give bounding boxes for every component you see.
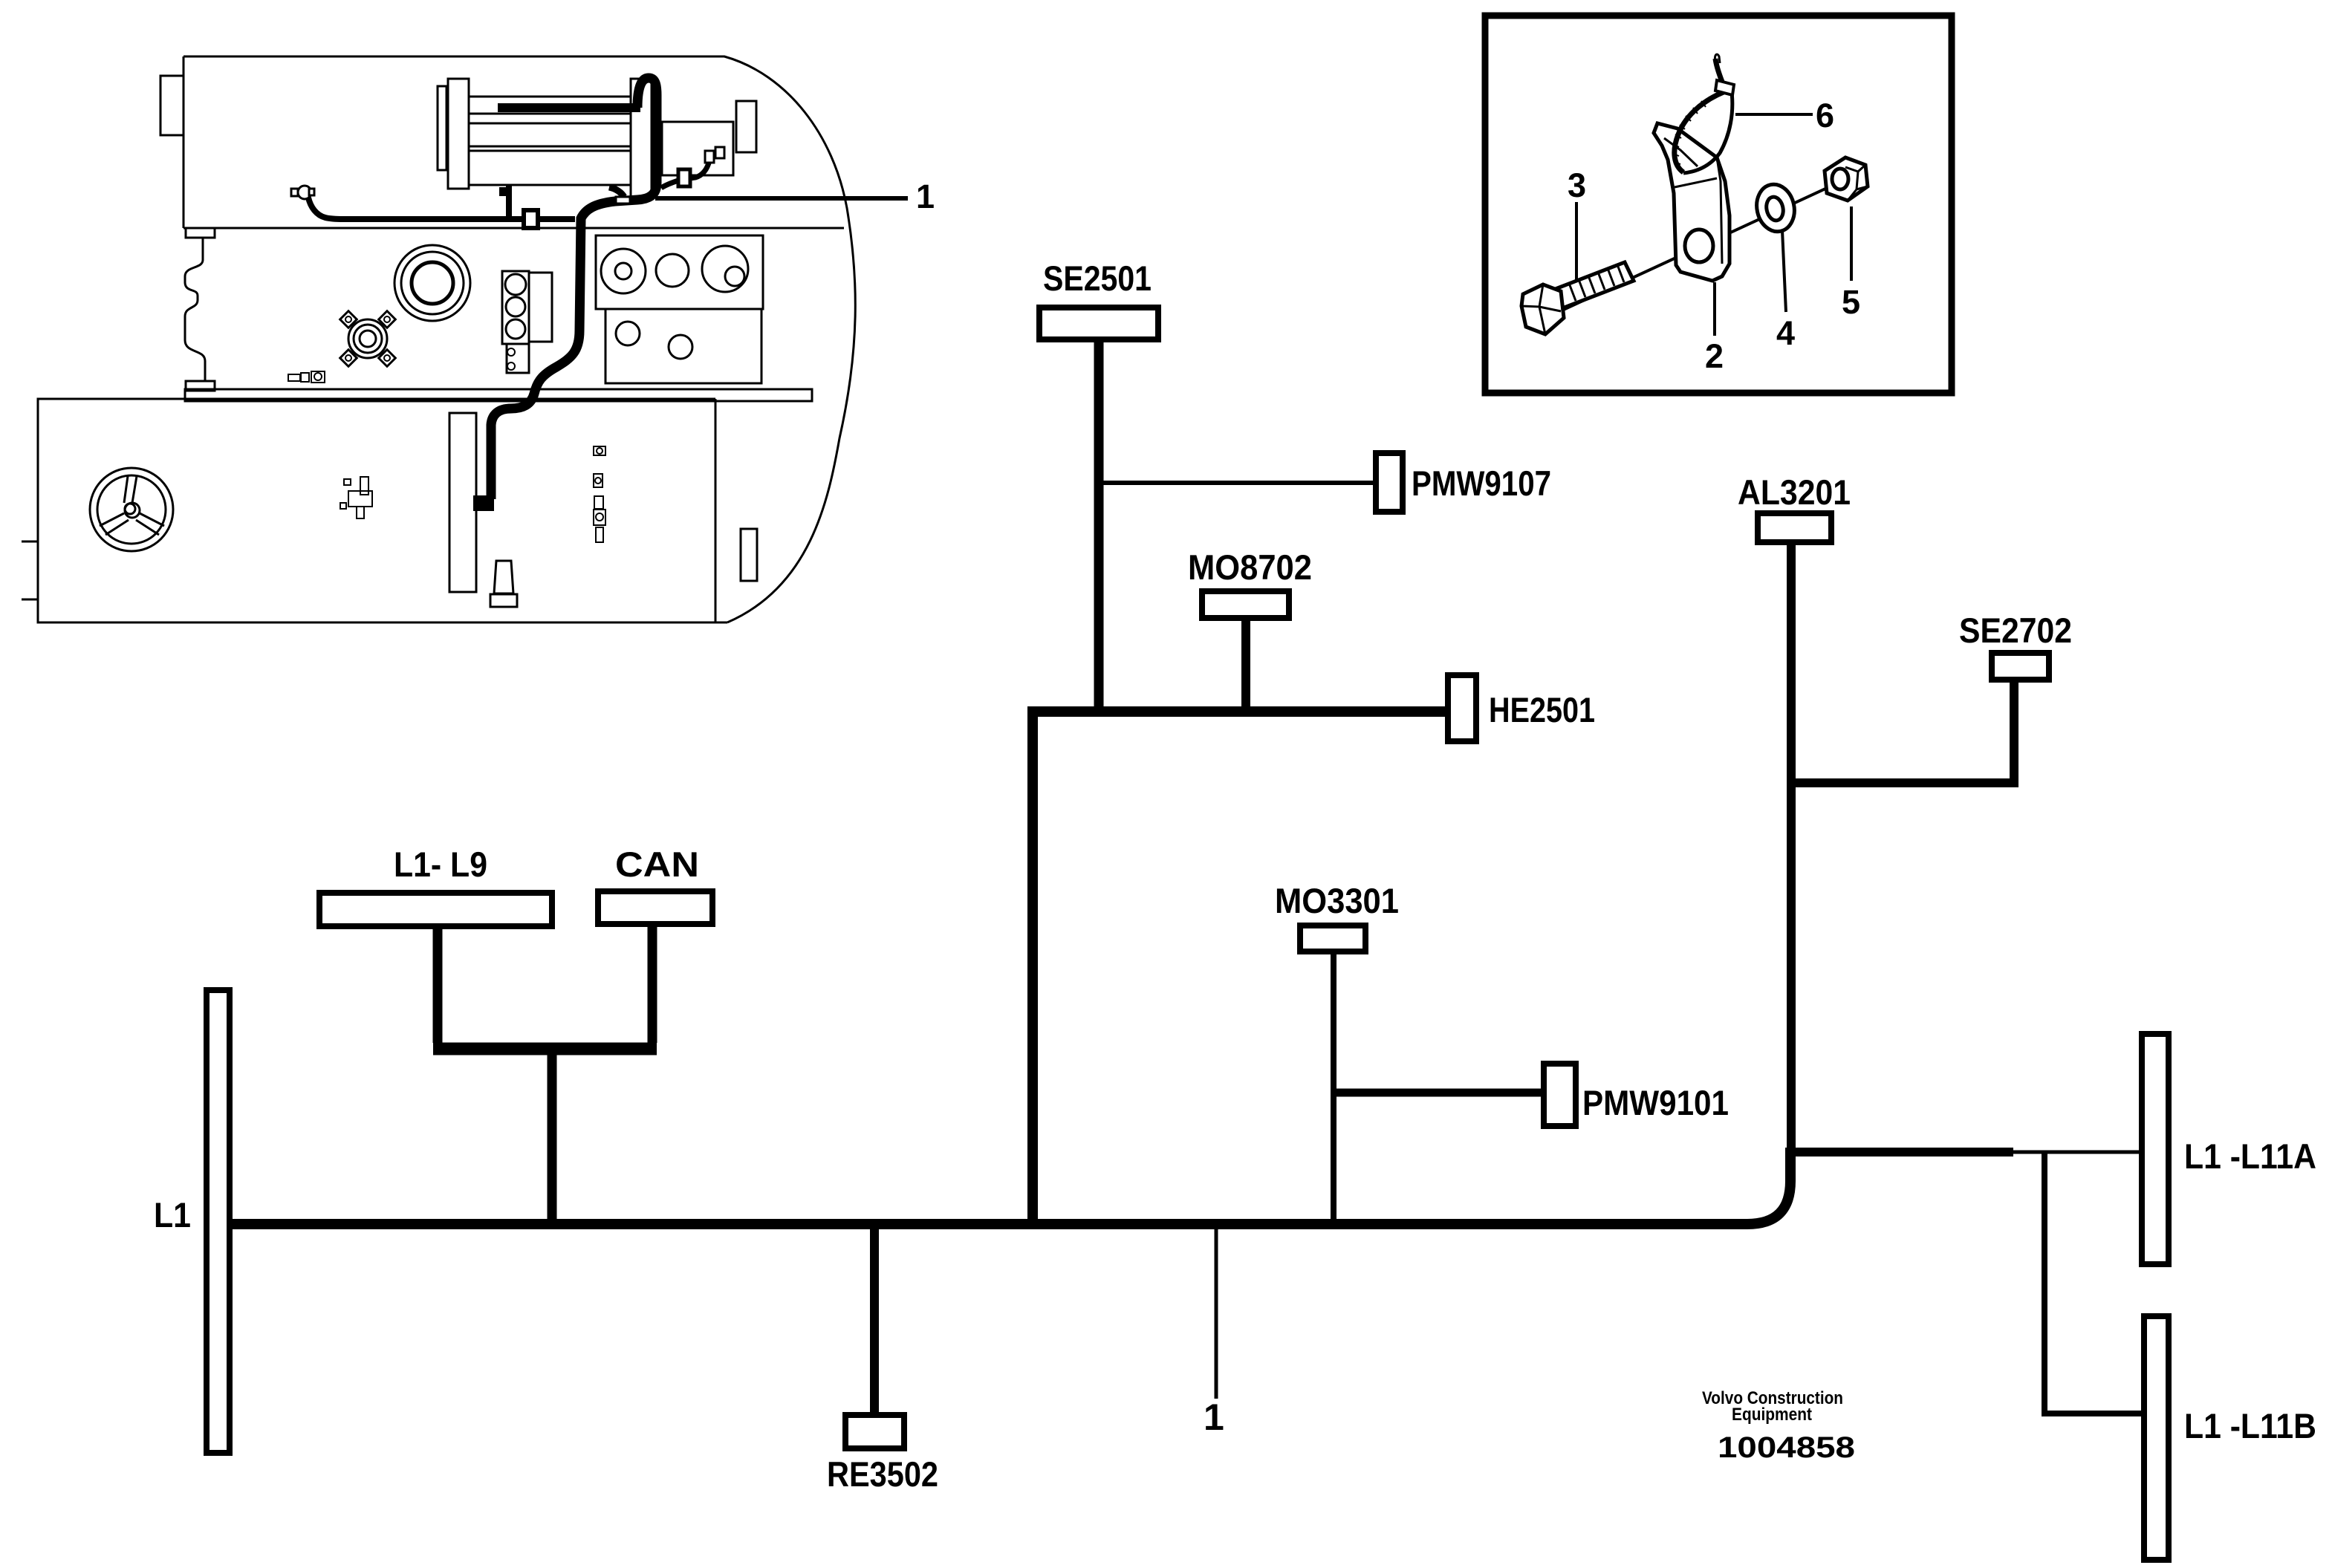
heater body line 4	[469, 150, 631, 152]
nut item 5	[1825, 157, 1868, 201]
wire: main bus L1 to right elbow up	[230, 1148, 1790, 1224]
cab left notch	[160, 76, 183, 135]
cable tie serration ticks	[1673, 101, 1706, 164]
cab floor right edge	[715, 399, 717, 622]
gauge 1	[601, 249, 646, 293]
shifter group	[344, 479, 351, 485]
harness junction fitting	[609, 187, 624, 197]
small connector pair on deck	[288, 374, 300, 381]
right thin wire to engine connector	[661, 160, 709, 188]
cab firewall line	[183, 227, 844, 230]
cable tie buckle	[1715, 80, 1734, 95]
switch module with three circles	[502, 271, 529, 344]
svg-text:6: 6	[1816, 97, 1834, 134]
connector L1-L11B	[2144, 1316, 2169, 1560]
cab mid-left notched edge	[185, 238, 205, 381]
instrument cluster box	[596, 235, 763, 309]
connector MO8702	[1202, 591, 1289, 618]
wire: thin drop to L1-L11B	[2044, 1152, 2144, 1414]
wire: MO3301 stem	[1331, 953, 1336, 1224]
connector L1-L9	[319, 893, 552, 926]
cable tie item 6	[1675, 91, 1727, 172]
wire: sub-bus to HE2501 with left elbow down	[1033, 712, 1451, 1224]
heater extension box	[662, 122, 733, 175]
cab floor rectangle	[38, 399, 727, 622]
left connector of cab harness	[291, 186, 314, 199]
cab mid-left step top	[186, 228, 215, 238]
svg-text:MO3301: MO3301	[1275, 881, 1399, 920]
speaker concentric circles	[394, 245, 470, 321]
switch module lower block	[507, 344, 529, 373]
wire: drop from L1-L9/CAN join to main bus	[548, 1043, 557, 1224]
svg-text:PMW9101: PMW9101	[1582, 1083, 1729, 1122]
cab upper-left edge	[183, 56, 185, 228]
mount with four tabs	[340, 311, 396, 367]
console column	[449, 413, 476, 592]
leader line 2	[1713, 282, 1716, 336]
leader line 6	[1735, 113, 1813, 116]
connector PMW9107	[1376, 453, 1403, 512]
connector MO3301	[1300, 925, 1365, 951]
bolt thread lines	[1570, 267, 1624, 301]
wire: SE2501 stem vertical	[1094, 338, 1104, 716]
svg-text:L1 -L11B: L1 -L11B	[2184, 1406, 2316, 1445]
svg-text:5: 5	[1842, 283, 1860, 321]
heater far right cap	[736, 101, 756, 152]
leader line 3	[1575, 202, 1578, 282]
bolt head facet lines	[1521, 284, 1561, 334]
cable tie tail	[1715, 59, 1722, 82]
connector SE2501	[1039, 308, 1158, 339]
wire: branch to PMW9101	[1331, 1089, 1544, 1097]
heater right cap	[631, 79, 652, 198]
svg-text:2: 2	[1705, 337, 1724, 375]
cab floor left tick 2	[22, 599, 38, 601]
small parts column b	[594, 474, 603, 487]
cab floor left tick 1	[22, 541, 38, 543]
wire: AL3201 stem vertical	[1787, 542, 1796, 1152]
svg-text:1: 1	[916, 178, 935, 215]
cab mid-left step bottom	[186, 381, 215, 391]
connector HE2501	[1448, 675, 1476, 741]
connector L1-L11A	[2142, 1034, 2169, 1264]
small parts column d	[594, 510, 605, 525]
leader line for cab label 1	[655, 196, 908, 201]
axis line through bolt washer nut	[1560, 180, 1843, 311]
gauge 2	[656, 254, 689, 287]
harness cable run to left connector	[308, 198, 575, 219]
heater body line 3	[469, 146, 631, 148]
connector PMW9101	[1544, 1064, 1576, 1126]
bolt item 3	[1521, 262, 1634, 334]
lower panel box	[605, 309, 761, 383]
harness support tick	[499, 187, 508, 196]
svg-text:MO8702: MO8702	[1188, 547, 1312, 587]
harness clamp on deck	[524, 210, 538, 228]
connector CAN	[598, 891, 712, 924]
svg-text:L1: L1	[154, 1195, 191, 1234]
bracket item 2	[1654, 123, 1729, 281]
wire: RE3502 drop	[870, 1224, 879, 1415]
svg-text:L1 -L11A: L1 -L11A	[2184, 1136, 2316, 1176]
washer item 4	[1753, 181, 1799, 235]
small parts column c	[594, 496, 603, 509]
steering wheel	[90, 468, 173, 551]
wire: thin line to L1-L11A	[2013, 1151, 2142, 1154]
wire: MO8702 stem	[1241, 618, 1250, 716]
leader line 5	[1850, 206, 1853, 281]
heater body line 1	[469, 113, 631, 115]
harness end stub on console	[473, 495, 494, 511]
svg-text:PMW9107: PMW9107	[1412, 463, 1551, 503]
heater left small cap	[438, 86, 446, 170]
svg-text:AL3201: AL3201	[1738, 472, 1851, 512]
heater left cap	[448, 79, 469, 189]
wire: SE2702 stem and branch	[1787, 680, 2014, 783]
svg-text:3: 3	[1568, 166, 1586, 204]
connector AL3201	[1758, 513, 1831, 542]
cab outline top and nose curve	[183, 56, 855, 622]
connector SE2702	[1992, 653, 2049, 680]
small parts column e	[596, 527, 603, 542]
wire: L1-L9 and CAN joint	[438, 924, 652, 1043]
door handle	[741, 529, 757, 581]
inset frame	[1485, 16, 1952, 393]
wire: branch to PMW9107	[1094, 481, 1376, 485]
harness S-curve from heater down to deck	[491, 175, 657, 499]
heater body	[469, 97, 631, 185]
svg-text:CAN: CAN	[615, 845, 699, 884]
right wire clamp	[678, 169, 690, 186]
svg-text:SE2501: SE2501	[1043, 258, 1152, 298]
connector RE3502	[845, 1415, 904, 1448]
connector L1	[207, 990, 230, 1453]
harness support drop from heater	[506, 185, 512, 218]
bracket hole	[1685, 230, 1713, 262]
svg-text:L1- L9: L1- L9	[394, 845, 487, 884]
wire: branch y=1551 to L1-L11A thick part	[1786, 1148, 2013, 1157]
pedal boot	[494, 561, 513, 593]
harness thick bar on heater	[498, 103, 640, 112]
wire: leader line for label 1 (harness)	[1215, 1229, 1218, 1399]
small parts column a	[594, 446, 605, 455]
svg-text:4: 4	[1776, 314, 1795, 352]
cab deck plate	[185, 389, 812, 401]
svg-text:Equipment: Equipment	[1732, 1405, 1812, 1425]
svg-text:1004858: 1004858	[1718, 1431, 1855, 1464]
heater body line 2	[469, 123, 631, 125]
svg-text:RE3502: RE3502	[827, 1454, 938, 1494]
svg-text:SE2702: SE2702	[1959, 611, 2072, 650]
svg-text:1: 1	[1204, 1396, 1224, 1438]
gauge 3	[702, 246, 748, 292]
harness hook over heater right end	[637, 78, 657, 183]
engine connector small rects	[705, 147, 724, 163]
svg-text:HE2501: HE2501	[1489, 690, 1595, 729]
leader line 4	[1782, 230, 1786, 312]
bracket fold and edge lines	[1664, 138, 1722, 264]
